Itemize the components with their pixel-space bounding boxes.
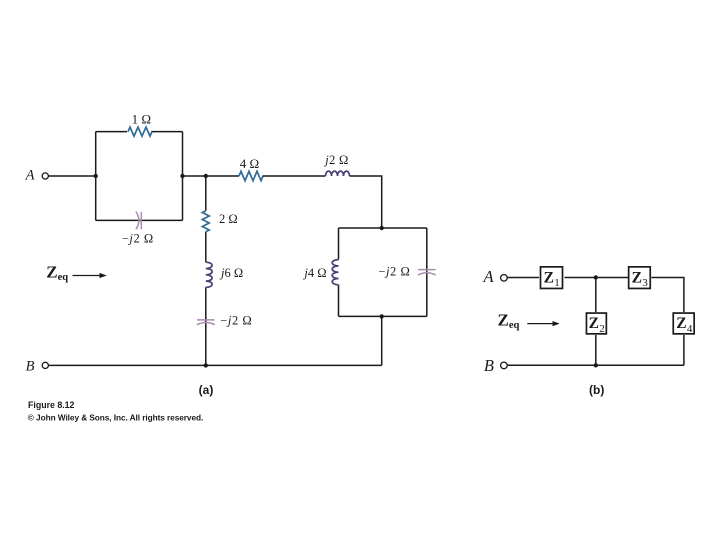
inductor j2 ohm — [326, 171, 350, 176]
svg-text:4: 4 — [687, 323, 693, 335]
node dot at left box — [94, 174, 98, 178]
wire Z1 to Z3 — [565, 277, 629, 279]
impedance box Z1 — [541, 267, 563, 289]
wire right box left vertical — [338, 228, 340, 316]
svg-text:Z: Z — [676, 315, 686, 332]
svg-text:−j2 Ω: −j2 Ω — [220, 313, 252, 327]
wire right box bottom — [339, 315, 427, 317]
svg-text:Z: Z — [632, 269, 642, 286]
svg-text:Z: Z — [589, 315, 599, 332]
wire Z2 bottom — [595, 335, 597, 365]
inductor j6 ohm — [206, 262, 212, 287]
wire bottom rail (a) — [49, 364, 382, 366]
svg-text:2: 2 — [599, 323, 605, 335]
svg-text:Figure 8.12: Figure 8.12 — [28, 400, 75, 410]
impedance box Z2 — [586, 313, 606, 335]
wire left box right vertical — [182, 132, 184, 221]
resistor 1 ohm — [128, 127, 152, 136]
svg-text:2 Ω: 2 Ω — [219, 212, 238, 226]
wire left box bottom — [96, 219, 183, 221]
wire Z3 to right corner down to Z4 — [652, 278, 684, 313]
wire right box top — [339, 227, 427, 229]
node dot right box top — [380, 226, 384, 230]
svg-text:© John Wiley & Sons, Inc. All: © John Wiley & Sons, Inc. All rights res… — [28, 412, 203, 422]
wire bottom rail (b) — [507, 364, 684, 366]
svg-text:j4 Ω: j4 Ω — [302, 266, 326, 280]
wire left box to middle node — [183, 175, 239, 177]
capacitor -j2 ohm (right box) — [418, 270, 436, 275]
svg-text:A: A — [483, 267, 495, 286]
svg-text:3: 3 — [642, 277, 648, 289]
resistor 2 ohm — [202, 211, 209, 232]
svg-text:1: 1 — [554, 277, 560, 289]
impedance box Z4 — [673, 313, 694, 335]
arrow Zeq (b) — [527, 321, 559, 326]
wire 4 ohm to j2 inductor — [263, 175, 326, 177]
impedance box Z3 — [629, 267, 651, 289]
svg-text:(a): (a) — [199, 383, 214, 397]
terminal B (b) — [501, 362, 508, 369]
terminal A (b) — [501, 275, 508, 282]
wire right box right vertical — [426, 228, 428, 316]
svg-text:(b): (b) — [589, 383, 604, 397]
svg-text:B: B — [484, 356, 494, 375]
wire A to Z1 — [507, 277, 539, 279]
svg-text:B: B — [26, 358, 35, 374]
wire A to left box — [49, 175, 96, 177]
arrow Zeq (a) — [73, 273, 107, 278]
wire j2 inductor to right corner and down — [350, 176, 382, 228]
svg-text:j6 Ω: j6 Ω — [219, 266, 243, 280]
node dot middle branch bottom — [204, 363, 208, 367]
terminal A — [42, 173, 48, 179]
inductor j4 ohm — [332, 260, 338, 285]
node dot right box bottom — [380, 314, 384, 318]
resistor 4 ohm — [239, 171, 263, 180]
svg-text:A: A — [25, 168, 35, 184]
wire middle branch vertical — [205, 176, 207, 365]
svg-text:Z: Z — [544, 269, 554, 286]
svg-text:Zeq: Zeq — [498, 311, 520, 332]
svg-text:−j2 Ω: −j2 Ω — [122, 231, 154, 245]
node dot at left box right — [180, 174, 184, 178]
wire left box top — [96, 131, 183, 133]
svg-text:j2 Ω: j2 Ω — [323, 153, 348, 167]
node dot Z2 top — [594, 275, 598, 279]
wire Z2 branch top — [595, 278, 597, 313]
svg-text:−j2 Ω: −j2 Ω — [378, 265, 410, 279]
wire Z4 bottom — [683, 335, 685, 365]
wire left box left vertical — [95, 132, 97, 221]
svg-text:1 Ω: 1 Ω — [132, 111, 151, 126]
capacitor -j2 ohm (middle branch) — [197, 320, 215, 325]
wire right box bottom to bottom rail — [381, 316, 383, 365]
terminal B — [42, 362, 48, 368]
svg-text:4 Ω: 4 Ω — [240, 156, 259, 171]
node dot Z2 bottom — [594, 363, 598, 367]
node dot middle branch top — [204, 174, 208, 178]
svg-text:Zeq: Zeq — [46, 262, 68, 283]
capacitor -j2 ohm (left box) — [136, 212, 141, 230]
